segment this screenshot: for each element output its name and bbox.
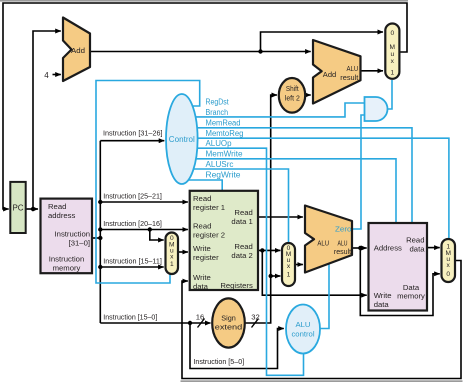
svg-text:16: 16	[196, 313, 205, 322]
wire: ALUSrc control signal	[182, 169, 289, 243]
wire: PC output to instruction memory read address	[26, 208, 38, 210]
svg-text:register 1: register 1	[193, 203, 225, 212]
svg-text:register: register	[193, 253, 219, 262]
mux: ALUSrc (0 Mux 1)	[282, 243, 295, 286]
svg-text:RegWrite: RegWrite	[206, 171, 242, 180]
svg-text:Read: Read	[48, 202, 66, 211]
ALU	[305, 206, 352, 273]
wire: Instruction [15-0] to sign extend	[100, 322, 210, 324]
svg-text:extend: extend	[215, 323, 243, 332]
mux: PC source (0 Mux 1)	[385, 24, 399, 79]
svg-text:1: 1	[287, 272, 291, 279]
svg-text:MemWrite: MemWrite	[206, 149, 244, 158]
svg-text:0: 0	[390, 30, 394, 37]
svg-text:RegDst: RegDst	[206, 97, 230, 106]
shift left 2 oval	[279, 78, 305, 113]
wire: ALU result bypass to MemtoReg mux input 0	[360, 248, 439, 316]
junction: sign extend output branch	[269, 274, 273, 278]
svg-text:Control: Control	[169, 135, 195, 144]
wire: Instruction [25-21] to Read register 1	[100, 201, 188, 203]
svg-text:Instruction: Instruction	[49, 255, 84, 264]
wire: ALUSrc mux output to ALU input 2	[295, 264, 303, 266]
wire: Branch control signal	[182, 103, 365, 117]
svg-text:memory: memory	[53, 264, 81, 273]
svg-text:1: 1	[390, 70, 394, 77]
wire: MemWrite control signal	[182, 159, 396, 223]
svg-text:data 1: data 1	[231, 217, 252, 226]
svg-text:M: M	[390, 44, 396, 51]
svg-text:ALU: ALU	[317, 239, 329, 248]
junction: ALU result branch	[358, 246, 362, 250]
bus width slash 32	[252, 319, 259, 328]
data memory box	[369, 223, 428, 311]
junction: bus tap 20-16	[98, 227, 102, 231]
junction: bus tap 25-21	[98, 200, 102, 204]
svg-text:Instruction [15–0]: Instruction [15–0]	[103, 312, 157, 321]
wire: Read data 1 to ALU input 1	[258, 216, 303, 218]
junction: instruction bus at memory output	[98, 236, 102, 240]
svg-text:Read: Read	[234, 242, 252, 251]
svg-text:ALU: ALU	[296, 320, 311, 329]
ALU control oval	[286, 305, 320, 354]
svg-text:Instruction: Instruction	[55, 230, 90, 239]
svg-text:[31–0]: [31–0]	[69, 239, 90, 248]
svg-text:Zero: Zero	[335, 226, 352, 233]
wire: Read data 2 to ALUSrc mux input 0	[258, 249, 280, 251]
junction: 20-16 branch to mux	[148, 227, 152, 231]
svg-text:Instruction [5–0]: Instruction [5–0]	[193, 357, 244, 366]
wire: Instruction [20-16] down to write-register mux input 0	[150, 230, 164, 241]
svg-text:Write: Write	[193, 244, 211, 253]
svg-text:left 2: left 2	[285, 93, 300, 102]
PC register	[10, 182, 25, 233]
svg-text:PC: PC	[12, 204, 23, 213]
svg-text:result: result	[334, 249, 351, 256]
wire: AND gate output to PC-source mux select	[387, 80, 392, 109]
wire: RegDst control signal	[96, 81, 200, 284]
wire: write-register mux output to Write register	[178, 251, 188, 253]
bus width slash 16	[198, 319, 205, 328]
svg-text:Read: Read	[193, 222, 211, 231]
wire: RegWrite control signal	[184, 180, 222, 191]
svg-text:Instruction [31–26]: Instruction [31–26]	[103, 129, 163, 138]
svg-text:Instruction [20–16]: Instruction [20–16]	[103, 219, 162, 228]
wire: ALUOp control signal	[182, 148, 304, 375]
mux: MemtoReg (1 Mux 0)	[442, 239, 456, 282]
svg-text:data 2: data 2	[231, 251, 252, 260]
svg-text:control: control	[291, 330, 314, 339]
svg-text:Address: Address	[374, 243, 402, 252]
svg-text:Branch: Branch	[206, 108, 229, 117]
junction: PC+4 branch	[258, 49, 262, 53]
svg-text:data: data	[410, 244, 426, 253]
sign extend oval	[212, 298, 245, 347]
junction: PC output branch	[31, 207, 35, 211]
wire: PC+4 to branch adder top input	[261, 51, 311, 53]
svg-text:1: 1	[170, 261, 174, 268]
svg-text:Sign: Sign	[221, 313, 236, 322]
svg-text:32: 32	[251, 313, 260, 322]
svg-text:u: u	[390, 51, 394, 58]
svg-text:Add: Add	[71, 46, 85, 55]
mux: write register select (0 Mux 1)	[166, 233, 179, 275]
wire: instruction bus vertical	[99, 141, 101, 323]
svg-text:Read: Read	[234, 208, 252, 217]
wire: Instruction [31-26] to Control	[100, 140, 164, 142]
registers box	[190, 191, 258, 290]
wire: branch adder ALU result to branch mux input 1	[361, 70, 384, 72]
svg-text:Add: Add	[323, 70, 336, 79]
svg-text:Read: Read	[193, 194, 211, 203]
svg-text:Instruction [15–11]: Instruction [15–11]	[103, 257, 162, 266]
wire: instruction memory output to instruction bus	[92, 237, 100, 239]
instruction memory box	[41, 199, 93, 274]
svg-text:Write: Write	[374, 291, 392, 300]
svg-text:address: address	[48, 211, 76, 220]
adder Add (branch target)	[313, 40, 361, 104]
svg-text:Read: Read	[406, 235, 424, 244]
wire: MemRead control signal	[182, 128, 412, 223]
wire: sign extend output up to shift left 2	[245, 95, 277, 323]
junction: bus tap 15-11	[98, 265, 102, 269]
svg-text:Registers: Registers	[220, 281, 253, 290]
svg-text:MemtoReg: MemtoReg	[206, 129, 244, 138]
junction: Read data 2 branch	[260, 248, 264, 252]
wire: PC-source mux output loop back to PC input	[3, 3, 407, 209]
wire: shift left 2 output to branch adder	[305, 94, 311, 96]
svg-text:ALU: ALU	[347, 66, 359, 73]
svg-text:register 2: register 2	[193, 231, 225, 240]
wire: ALU result to data memory Address	[352, 247, 367, 249]
AND gate (branch)	[365, 97, 388, 121]
svg-text:data: data	[193, 282, 209, 291]
wire: constant 4 into Add	[53, 74, 61, 76]
wire: ALU control output to ALU	[320, 265, 329, 329]
svg-text:MemRead: MemRead	[206, 119, 241, 128]
svg-text:result: result	[340, 75, 358, 82]
wire shadow top	[0, 0, 408, 2]
svg-text:Instruction [25–21]: Instruction [25–21]	[103, 191, 162, 200]
wire shadow bottom	[181, 380, 463, 382]
wire: Zero flag to AND gate	[353, 115, 365, 229]
svg-text:ALUOp: ALUOp	[206, 139, 233, 148]
wire: Read data 2 to data memory Write data	[262, 250, 366, 295]
svg-text:Write: Write	[193, 273, 211, 282]
svg-text:Shift: Shift	[286, 84, 299, 93]
wire: Instruction [20-16] to Read register 2	[100, 229, 188, 231]
wire: data memory Read data to MemtoReg mux input 1	[427, 247, 440, 249]
svg-text:4: 4	[44, 71, 49, 80]
wire: sign extend output to ALUSrc mux input 1	[271, 275, 281, 277]
wire: Add PC+4 output to branch mux input 0	[90, 32, 383, 52]
svg-text:0: 0	[446, 271, 450, 278]
svg-text:memory: memory	[397, 292, 425, 301]
wire: Instruction [15-11] to write-register mux input 1	[100, 266, 163, 268]
adder Add (PC+4)	[63, 18, 90, 82]
control unit oval	[166, 94, 198, 184]
wire: MemtoReg control signal	[182, 138, 449, 239]
svg-text:ALU: ALU	[338, 240, 348, 247]
svg-text:ALUSrc: ALUSrc	[206, 160, 234, 169]
wire: Instruction [5-0] funct field to ALU control	[190, 323, 284, 369]
junction: funct field tap	[188, 321, 192, 325]
wire: PC output up to Add (PC+4)	[33, 31, 61, 209]
wire: MemtoReg mux output writeback to Registers Write data	[182, 261, 461, 379]
svg-text:data: data	[374, 300, 390, 309]
